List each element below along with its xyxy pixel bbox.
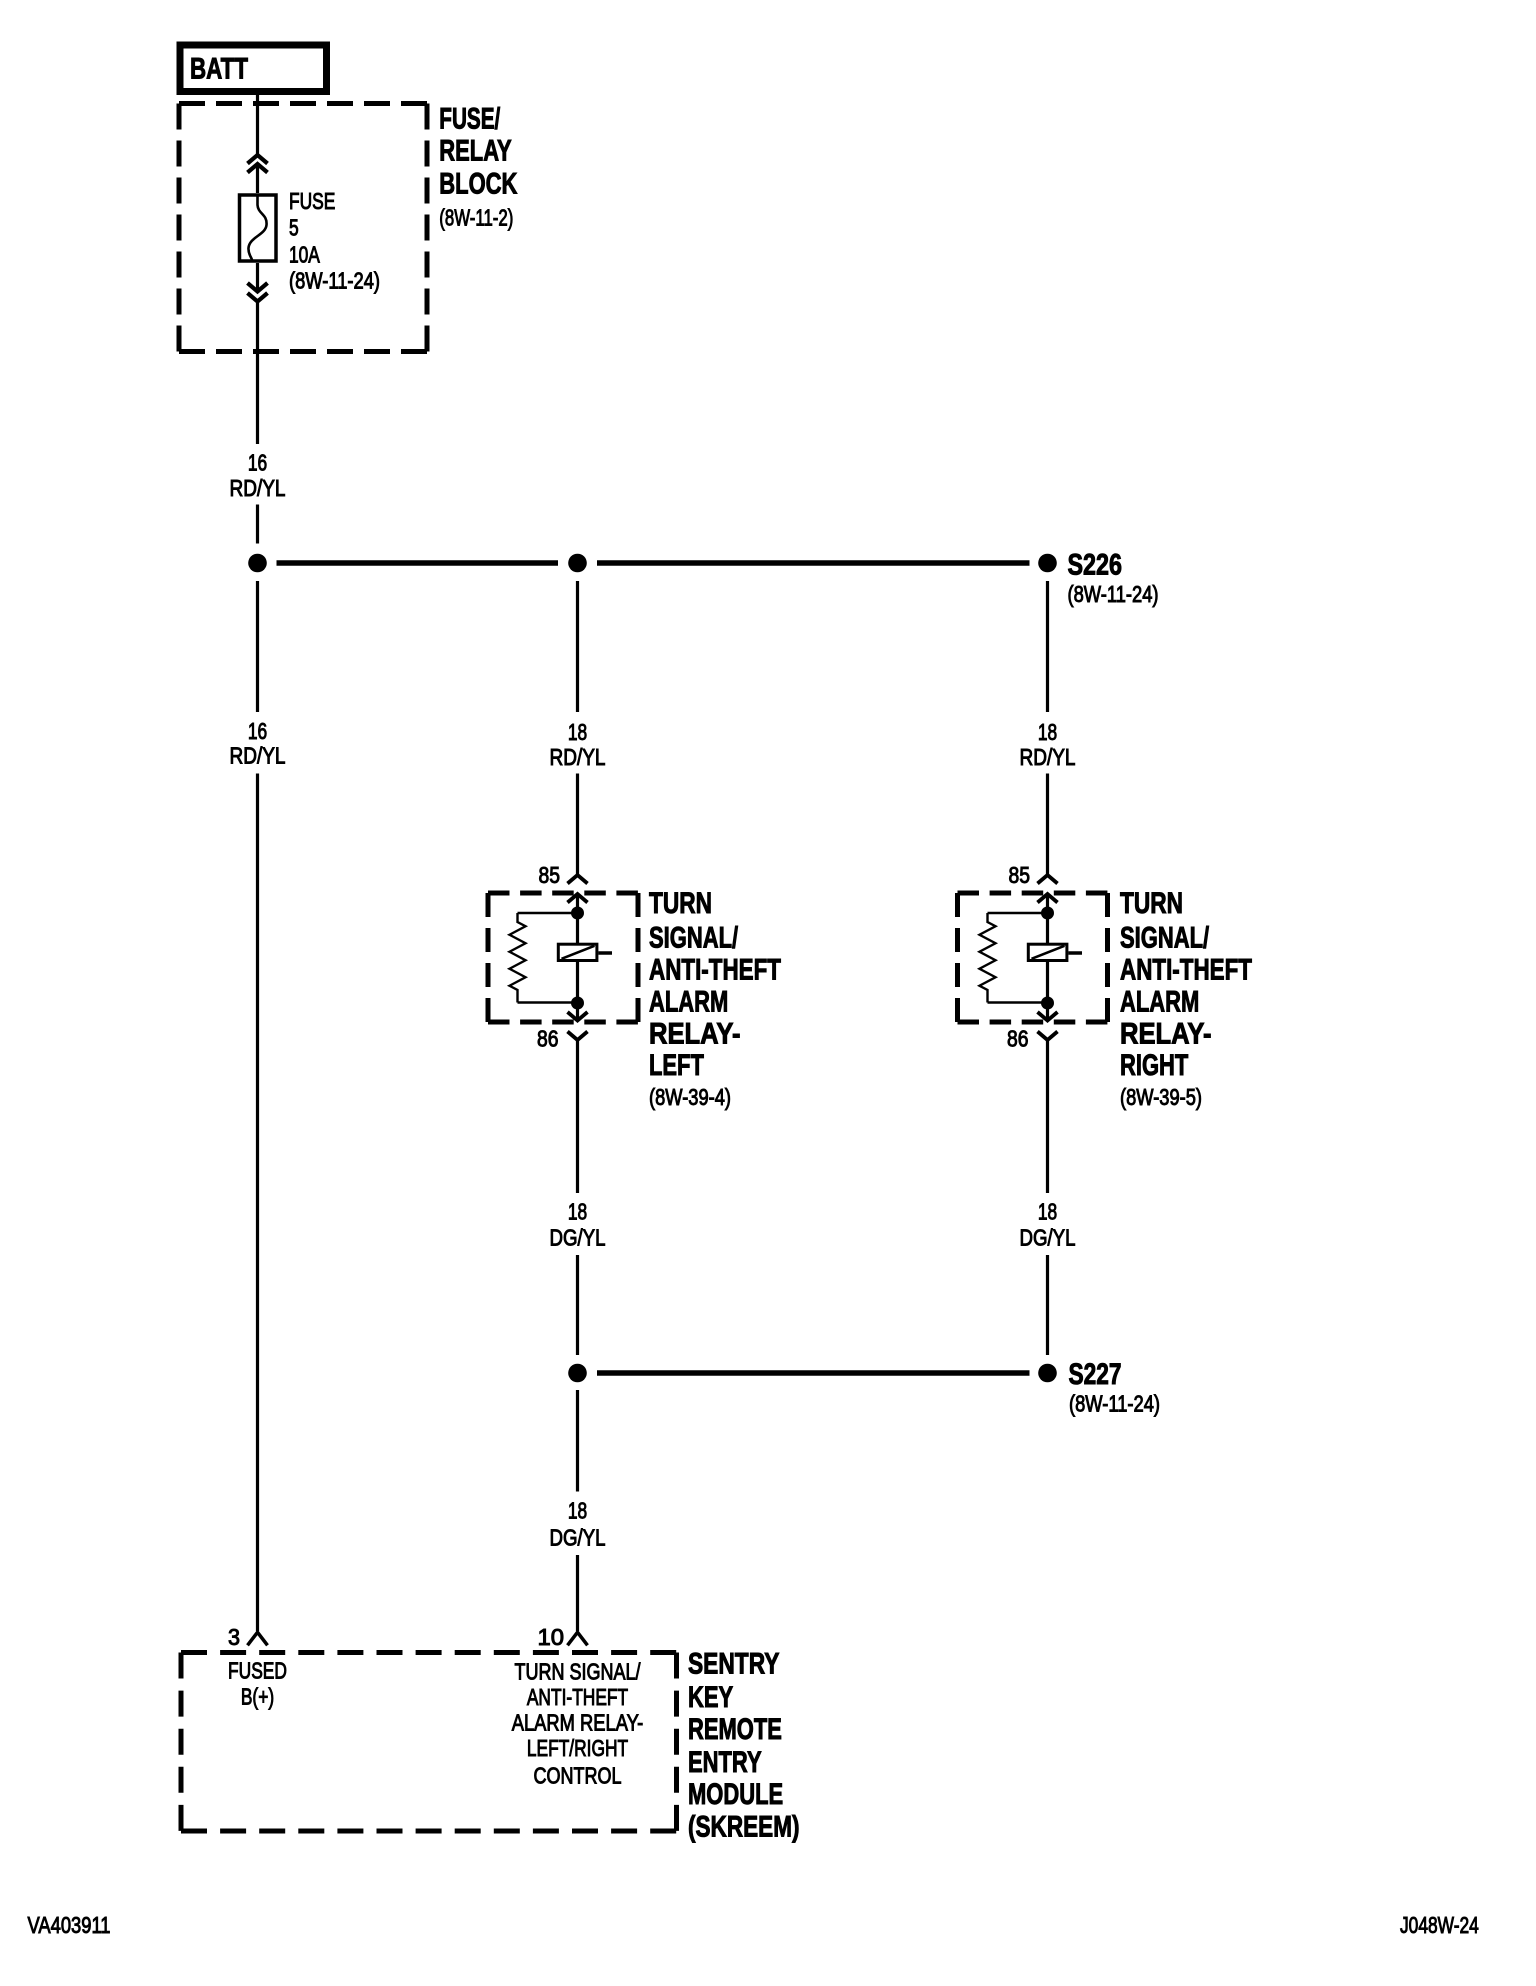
svg-text:(SKREEM): (SKREEM) (688, 1810, 800, 1843)
fuse/relay block dashed box (179, 104, 427, 352)
wire W1 long run to SKREEM (256, 774, 259, 1632)
svg-text:ALARM: ALARM (1120, 985, 1199, 1018)
relay (8W-39-4) wire through coil (576, 962, 579, 1193)
svg-text:(8W-11-2): (8W-11-2) (439, 205, 513, 231)
svg-text:RELAY-: RELAY- (649, 1017, 741, 1050)
svg-text:3: 3 (228, 1624, 240, 1650)
bus wire S227 (597, 1370, 1030, 1376)
relay (8W-39-5) coil element (1028, 944, 1082, 960)
svg-text:(8W-11-24): (8W-11-24) (1069, 1391, 1160, 1417)
connector chevrons below fuse (248, 283, 268, 302)
svg-text:CONTROL: CONTROL (534, 1763, 622, 1789)
svg-text:85: 85 (539, 862, 561, 888)
svg-text:RELAY-: RELAY- (1120, 1017, 1212, 1050)
relay (8W-39-5) pin 86 chevron inner (1038, 1012, 1058, 1021)
relay (8W-39-4) dashed box (488, 893, 638, 1022)
relay (8W-39-5) wire through coil (1046, 962, 1049, 1193)
svg-text:LEFT/RIGHT: LEFT/RIGHT (527, 1735, 628, 1761)
node junction dot left (248, 554, 267, 573)
svg-text:86: 86 (1007, 1026, 1029, 1052)
svg-text:DG/YL: DG/YL (550, 1225, 606, 1251)
svg-text:16: 16 (248, 450, 267, 476)
relay (8W-39-5) coil suppression resistor (980, 913, 1042, 1003)
splice S227 left dot (568, 1364, 587, 1383)
relay (8W-39-5) dashed box (958, 893, 1108, 1022)
wire W3 to relay-right (1046, 774, 1049, 944)
svg-text:REMOTE: REMOTE (688, 1713, 782, 1746)
relay (8W-39-4) pin 85 chevron outer (568, 875, 588, 884)
svg-text:S226: S226 (1068, 549, 1123, 582)
svg-text:10A: 10A (289, 242, 320, 268)
relay (8W-39-5) coil top junction dot (1041, 907, 1054, 920)
svg-text:RD/YL: RD/YL (230, 743, 286, 769)
splice S226 dot (1038, 554, 1057, 573)
connector chevrons above fuse (248, 155, 268, 173)
svg-text:FUSED: FUSED (228, 1658, 287, 1684)
relay (8W-39-5) pin 86 chevron outer (1038, 1032, 1058, 1041)
splice S227 dot (1038, 1364, 1057, 1383)
wire BATT to fuse (256, 95, 259, 193)
node junction dot middle (568, 554, 587, 573)
svg-text:BATT: BATT (190, 53, 248, 86)
svg-text:16: 16 (248, 718, 267, 744)
SKREEM pin 3 chevron (248, 1632, 268, 1645)
svg-text:85: 85 (1009, 862, 1031, 888)
wire W1 mid (256, 505, 259, 544)
svg-text:(8W-11-24): (8W-11-24) (1068, 581, 1159, 607)
svg-text:(8W-39-5): (8W-39-5) (1120, 1084, 1202, 1110)
svg-text:S227: S227 (1069, 1358, 1122, 1391)
svg-text:LEFT: LEFT (649, 1049, 704, 1082)
svg-text:(8W-39-4): (8W-39-4) (649, 1084, 731, 1110)
svg-text:TURN: TURN (1120, 887, 1183, 920)
svg-text:18: 18 (568, 1199, 587, 1225)
svg-text:RELAY: RELAY (439, 135, 511, 168)
svg-text:10: 10 (538, 1624, 565, 1650)
svg-text:ENTRY: ENTRY (688, 1746, 762, 1779)
relay (8W-39-4) coil top junction dot (571, 907, 584, 920)
svg-text:18: 18 (568, 1498, 587, 1524)
svg-text:J048W-24: J048W-24 (1400, 1912, 1479, 1938)
relay (8W-39-4) coil suppression resistor (510, 913, 572, 1003)
bus wire S226 segment 2 (597, 560, 1030, 566)
svg-text:ANTI-THEFT: ANTI-THEFT (1120, 954, 1252, 987)
svg-text:RD/YL: RD/YL (550, 744, 606, 770)
wire W2 below bus (576, 581, 579, 712)
svg-text:ANTI-THEFT: ANTI-THEFT (649, 954, 781, 987)
relay (8W-39-4) coil bottom junction dot (571, 997, 584, 1010)
svg-text:5: 5 (289, 215, 299, 241)
relay (8W-39-4) pin 85 chevron inner (568, 894, 588, 903)
svg-text:SIGNAL/: SIGNAL/ (1120, 922, 1210, 955)
svg-text:18: 18 (1038, 1199, 1057, 1225)
svg-text:TURN: TURN (649, 887, 712, 920)
wire W2 to relay-left (576, 774, 579, 944)
svg-text:DG/YL: DG/YL (550, 1525, 606, 1551)
wire W2 to S227 (576, 1255, 579, 1355)
svg-text:MODULE: MODULE (688, 1778, 783, 1811)
svg-text:18: 18 (568, 719, 587, 745)
svg-text:FUSE/: FUSE/ (439, 103, 500, 136)
SKREEM pin 10 chevron (568, 1632, 588, 1645)
wire below fuse (256, 263, 259, 444)
wire W1 below bus (256, 581, 259, 712)
SKREEM module dashed box (181, 1653, 677, 1832)
relay (8W-39-5) pin 85 chevron inner (1038, 894, 1058, 903)
relay (8W-39-4) coil element (558, 944, 612, 960)
svg-text:RD/YL: RD/YL (230, 475, 286, 501)
battery feed BATT box (180, 45, 327, 92)
svg-text:ALARM: ALARM (649, 985, 728, 1018)
wire W3 to S227 (1046, 1255, 1049, 1355)
svg-text:RIGHT: RIGHT (1120, 1049, 1188, 1082)
svg-text:86: 86 (537, 1026, 559, 1052)
wire W2 to SKREEM pin 10 (576, 1555, 579, 1631)
svg-text:ALARM RELAY-: ALARM RELAY- (512, 1710, 644, 1736)
svg-text:DG/YL: DG/YL (1020, 1225, 1076, 1251)
svg-text:SENTRY: SENTRY (688, 1648, 780, 1681)
wire W2 below S227 (576, 1390, 579, 1492)
bus wire S226 segment 1 (277, 560, 559, 566)
fuse 5 10A symbol (240, 195, 277, 262)
svg-text:KEY: KEY (688, 1681, 733, 1714)
svg-text:FUSE: FUSE (289, 188, 335, 214)
wire W3 below bus (1046, 581, 1049, 712)
svg-text:18: 18 (1038, 719, 1057, 745)
svg-text:RD/YL: RD/YL (1020, 744, 1076, 770)
relay (8W-39-4) pin 86 chevron outer (568, 1032, 588, 1041)
svg-text:ANTI-THEFT: ANTI-THEFT (527, 1684, 628, 1710)
svg-text:TURN SIGNAL/: TURN SIGNAL/ (515, 1659, 641, 1685)
relay (8W-39-4) pin 86 chevron inner (568, 1012, 588, 1021)
svg-text:B(+): B(+) (241, 1684, 274, 1710)
svg-text:VA403911: VA403911 (28, 1912, 111, 1938)
relay (8W-39-5) coil bottom junction dot (1041, 997, 1054, 1010)
svg-text:(8W-11-24): (8W-11-24) (289, 268, 380, 294)
relay (8W-39-5) pin 85 chevron outer (1038, 875, 1058, 884)
svg-text:SIGNAL/: SIGNAL/ (649, 922, 739, 955)
svg-text:BLOCK: BLOCK (439, 168, 517, 201)
